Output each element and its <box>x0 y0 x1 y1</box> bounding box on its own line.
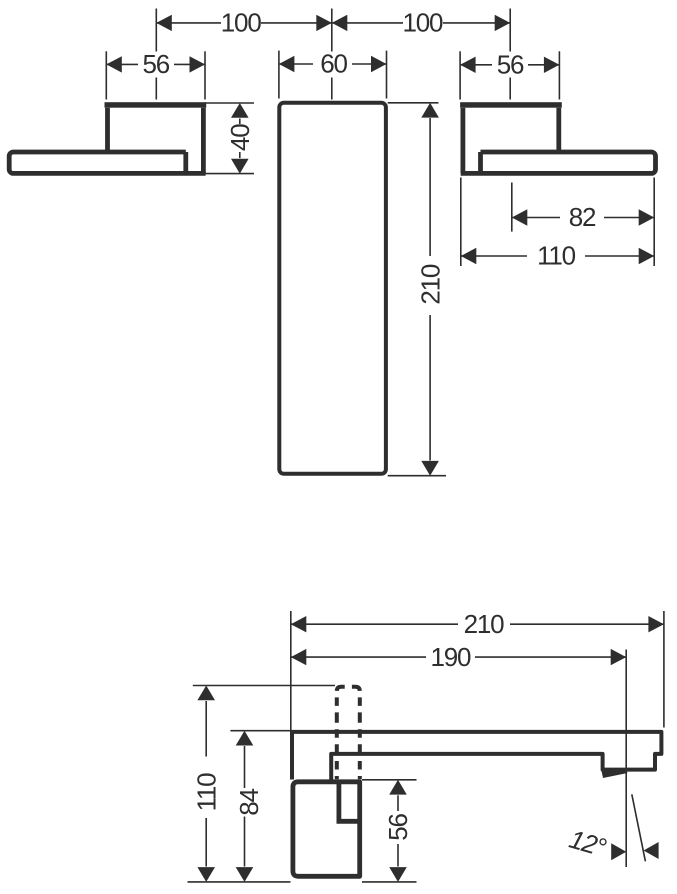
svg-text:12°: 12° <box>566 824 609 863</box>
dimension 60 spout plate width <box>279 49 387 99</box>
svg-text:110: 110 <box>192 773 222 812</box>
left handle hub right edge <box>201 108 206 174</box>
right handle hub right edge <box>556 108 561 154</box>
dimension 84 spout top to handle bottom <box>230 731 290 882</box>
left handle lever/hub joint line <box>183 152 188 173</box>
svg-text:210: 210 <box>415 264 445 305</box>
svg-text:84: 84 <box>234 789 264 816</box>
dimension 190 wall to aerator axis <box>291 642 626 672</box>
dimension 110 right handle total length <box>461 178 654 271</box>
bottom extension line <box>188 881 291 883</box>
svg-text:210: 210 <box>464 609 505 639</box>
svg-text:100: 100 <box>221 8 262 38</box>
12 degree slant line <box>632 794 646 861</box>
dimension 210 spout reach <box>291 609 664 730</box>
svg-text:190: 190 <box>431 642 472 672</box>
svg-text:56: 56 <box>143 49 170 79</box>
dimension 56 left handle width <box>106 49 205 99</box>
handle body (side view) <box>293 782 360 877</box>
left handle escutcheon bar <box>105 102 207 108</box>
dimension 56 right handle width <box>460 50 559 100</box>
dimension 210 spout plate height <box>388 103 446 476</box>
right handle lever/hub joint line <box>478 152 483 173</box>
svg-text:60: 60 <box>320 49 347 79</box>
svg-text:56: 56 <box>497 50 524 80</box>
svg-text:110: 110 <box>537 241 576 271</box>
svg-text:40: 40 <box>225 124 255 151</box>
dimension 110 total height <box>192 686 335 882</box>
right handle lever outline <box>461 152 656 173</box>
dimension 100 right (spout axis to right handle axis) <box>332 8 510 38</box>
right handle hub left edge <box>460 108 465 174</box>
centerline spout axis <box>331 9 333 100</box>
right handle escutcheon bar <box>460 102 562 108</box>
dimension 82 handle axis to lever tip <box>512 183 654 233</box>
svg-text:100: 100 <box>403 8 444 38</box>
svg-text:82: 82 <box>569 202 596 232</box>
dimension 100 left (handle axis to spout axis) <box>156 8 331 38</box>
spout plate (front view) <box>279 103 386 474</box>
centerline right handle axis <box>509 9 511 100</box>
svg-text:56: 56 <box>383 814 413 841</box>
left handle hub left edge <box>105 108 110 154</box>
left handle lever outline <box>9 152 205 173</box>
dimension 56 handle height (side) <box>362 780 417 882</box>
12 degree angle arrows <box>611 842 658 860</box>
spout outline (side view) <box>292 732 661 782</box>
centerline left handle axis <box>155 9 157 100</box>
handle hub/lever joint (side view) <box>339 782 360 822</box>
concealed body (dashed) <box>337 687 349 779</box>
aerator bevel (12 deg face) <box>602 771 628 778</box>
aerator axis / 190 extension line <box>625 650 627 868</box>
dimension 40 handle height <box>205 103 255 174</box>
